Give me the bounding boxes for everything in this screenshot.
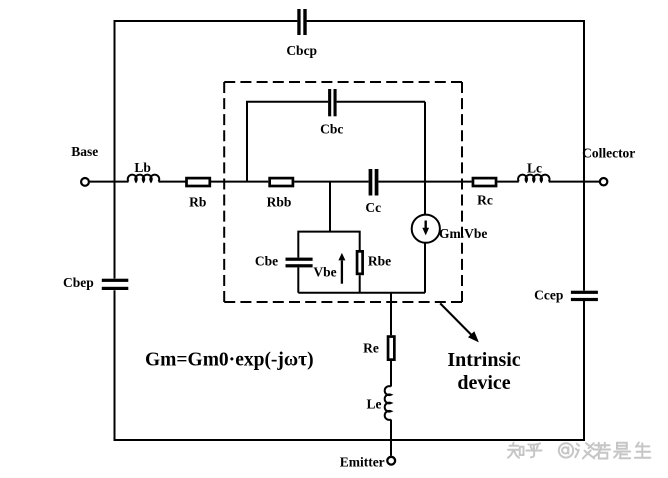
svg-text:Rb: Rb (189, 195, 206, 210)
svg-text:Collector: Collector (582, 145, 635, 160)
svg-text:Cc: Cc (365, 200, 381, 215)
svg-text:Re: Re (363, 341, 379, 356)
svg-text:Cbe: Cbe (255, 254, 278, 269)
svg-text:Ccep: Ccep (534, 288, 563, 303)
svg-text:Gm.Vbe: Gm.Vbe (439, 226, 487, 241)
svg-text:Lc: Lc (527, 160, 542, 175)
svg-text:Base: Base (71, 144, 98, 159)
svg-text:device: device (457, 372, 510, 394)
svg-text:Cbcp: Cbcp (286, 43, 317, 58)
svg-text:Rbb: Rbb (267, 195, 292, 210)
svg-text:Rbe: Rbe (368, 254, 391, 269)
svg-text:Rc: Rc (477, 193, 493, 208)
svg-text:Emitter: Emitter (340, 455, 385, 470)
svg-text:Gm=Gm0·exp(-jωτ): Gm=Gm0·exp(-jωτ) (145, 350, 314, 371)
svg-text:Cbc: Cbc (320, 122, 343, 137)
svg-text:Cbep: Cbep (63, 275, 94, 290)
svg-text:Le: Le (367, 397, 382, 412)
svg-text:Intrinsic: Intrinsic (447, 349, 520, 371)
svg-text:Vbe: Vbe (313, 264, 336, 279)
svg-text:Lb: Lb (134, 160, 151, 175)
